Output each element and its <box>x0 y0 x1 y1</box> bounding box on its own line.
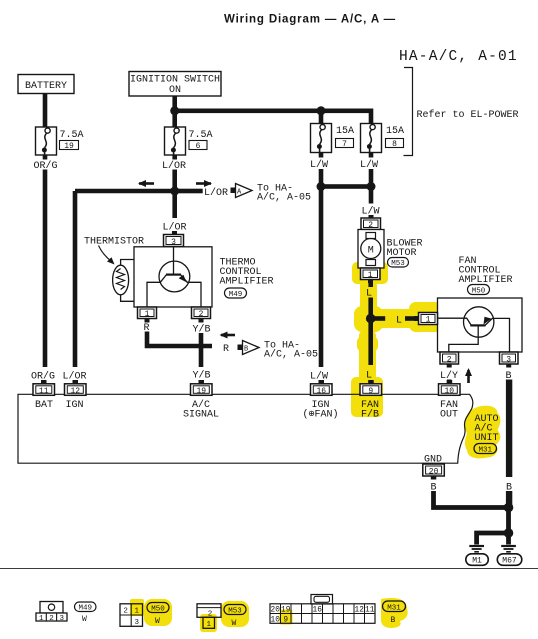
fuse 7 body <box>311 124 332 153</box>
connector stub square B <box>238 345 243 351</box>
svg-text:OUT: OUT <box>440 410 458 421</box>
wire B down right side <box>506 380 512 478</box>
svg-text:B: B <box>391 616 396 625</box>
wire junction to L/OR left elbow <box>75 189 175 194</box>
node junction L/W left <box>317 182 326 191</box>
svg-text:12: 12 <box>70 387 80 396</box>
svg-text:Y/B: Y/B <box>193 370 211 382</box>
wire L/OR left long run <box>73 191 78 367</box>
svg-text:19: 19 <box>64 142 74 151</box>
svg-text:BATTERY: BATTERY <box>25 81 67 92</box>
wire L/OR to junction A <box>172 170 177 192</box>
highlight AUTO A/C UNIT label <box>465 406 501 459</box>
wire label L/W (fuse 8 out) <box>369 153 374 158</box>
highlight wire blower to junction <box>360 280 377 322</box>
connector label M53 oval <box>388 258 409 268</box>
svg-text:M31: M31 <box>478 447 492 455</box>
svg-text:AMPLIFIER: AMPLIFIER <box>220 277 274 288</box>
svg-text:M49: M49 <box>229 291 243 299</box>
fuse 7 number box <box>336 139 354 148</box>
svg-text:ON: ON <box>169 85 181 96</box>
legend M50 oval <box>147 603 169 613</box>
svg-text:1: 1 <box>145 310 150 319</box>
op-amp box fan control amplifier <box>438 298 523 352</box>
connector label M49 oval <box>225 288 247 298</box>
transistor Q2 emitter leg to pin 2 <box>449 325 478 352</box>
transistor Q1 circle <box>159 261 190 292</box>
highlight wire blob mid <box>357 336 378 352</box>
legend M50 connector face <box>120 604 143 627</box>
svg-text:L: L <box>396 316 402 327</box>
svg-text:11: 11 <box>39 387 49 396</box>
wire to ground M1 <box>477 533 509 545</box>
highlight legend M50 pin 1 cell <box>130 599 144 616</box>
svg-text:9: 9 <box>283 616 288 624</box>
connector label M50 oval <box>468 285 490 295</box>
svg-text:2: 2 <box>368 221 373 230</box>
legend M31 connector face <box>270 604 375 624</box>
highlight legend M50 oval <box>144 599 172 626</box>
svg-text:Wiring Diagram — A/C, A —: Wiring Diagram — A/C, A — <box>224 14 396 26</box>
svg-text:3: 3 <box>60 615 65 623</box>
highlight connector 9 / FAN F/B <box>351 377 383 417</box>
svg-text:M31: M31 <box>387 605 401 613</box>
svg-text:9: 9 <box>368 387 373 396</box>
motor M1 blower body <box>358 230 384 269</box>
legend M49 oval <box>75 602 97 612</box>
wire L/OR down to pin 3 <box>172 193 177 218</box>
svg-text:IGN: IGN <box>66 400 84 411</box>
wire thermistor bottom to box <box>121 295 134 302</box>
wire junction L right segment <box>371 316 386 321</box>
wire L/Y to connector 10 <box>447 380 452 385</box>
svg-text:L/OR: L/OR <box>204 187 228 199</box>
svg-text:R: R <box>223 344 229 355</box>
svg-text:W: W <box>232 619 237 628</box>
transistor Q1 base wire from pin 3 <box>173 247 175 274</box>
svg-text:B: B <box>244 346 248 354</box>
ignition switch box <box>129 72 221 97</box>
svg-text:6: 6 <box>196 142 201 151</box>
fuse 8 number box <box>386 139 404 148</box>
highlight wire to connector 9 <box>359 330 376 382</box>
svg-text:20: 20 <box>271 607 281 615</box>
auto a/c unit box outline <box>18 394 473 463</box>
fuse 6 body <box>165 127 186 155</box>
wire junction to blower <box>369 187 374 204</box>
wire L down to connector 9 <box>368 321 373 366</box>
wire label OR/G (fuse 19 out) <box>43 155 48 160</box>
svg-text:15A: 15A <box>336 126 354 137</box>
transistor Q2 base bar <box>470 324 485 326</box>
svg-text:7: 7 <box>342 140 347 149</box>
node junction bus fuse 7 <box>317 106 326 115</box>
fuse 6 number box <box>189 141 207 150</box>
svg-text:W: W <box>155 617 160 626</box>
legend M31 tab <box>311 595 333 605</box>
wire L to junction <box>368 298 373 321</box>
highlight junction L <box>354 306 383 332</box>
node junction B upper <box>504 503 514 513</box>
node junction L <box>366 314 376 324</box>
wire thermistor top to box <box>121 260 134 266</box>
thermistor RT1 zigzag <box>117 269 125 290</box>
op-amp box thermo control amplifier <box>134 247 212 307</box>
ground M1 <box>469 545 484 547</box>
svg-text:1: 1 <box>135 608 140 616</box>
svg-text:1: 1 <box>368 271 373 280</box>
svg-text:A/C, A-05: A/C, A-05 <box>257 192 311 204</box>
wire label L/OR (fuse 6 out) <box>172 155 177 160</box>
svg-text:M1: M1 <box>472 557 482 566</box>
arrow left <box>139 182 154 185</box>
svg-text:2: 2 <box>447 356 452 365</box>
connector 20 <box>423 464 445 476</box>
highlight horizontal L wire <box>368 309 420 328</box>
thermistor RT1 body <box>113 265 129 295</box>
svg-text:2: 2 <box>123 608 128 616</box>
wire B from connector 20 elbow <box>434 491 507 508</box>
off-page triangle A <box>236 184 253 198</box>
svg-text:UNIT: UNIT <box>475 433 499 444</box>
svg-text:12: 12 <box>355 607 365 615</box>
svg-text:M50: M50 <box>472 288 486 296</box>
svg-text:3: 3 <box>506 356 511 365</box>
svg-text:10: 10 <box>271 616 281 624</box>
svg-text:19: 19 <box>281 607 291 615</box>
highlight legend M31 oval <box>381 598 408 628</box>
connector 12 <box>73 380 79 384</box>
wire junction L/W horizontal <box>321 184 371 189</box>
wire blower pin1 down <box>368 283 373 287</box>
wire L into fan amp pin 1 <box>405 316 414 321</box>
transistor Q1 collector leg to pin 1 <box>147 275 167 307</box>
fuse 8 body <box>361 124 382 153</box>
svg-text:15A: 15A <box>386 126 404 137</box>
transistor Q2 base wire <box>438 318 472 325</box>
legend M53 oval <box>224 605 246 615</box>
wire OR/G long run <box>43 170 48 368</box>
transistor Q2 circle <box>464 307 494 337</box>
wire battery to fuse 19 <box>43 94 48 128</box>
svg-text:M: M <box>368 246 374 257</box>
svg-text:11: 11 <box>365 607 375 615</box>
svg-text:L: L <box>366 371 372 382</box>
thermo amp pin 3 <box>172 231 177 235</box>
svg-text:M53: M53 <box>228 608 242 616</box>
connector 9 <box>368 380 374 384</box>
svg-text:7.5A: 7.5A <box>189 130 213 141</box>
svg-text:M53: M53 <box>391 260 405 268</box>
svg-text:M67: M67 <box>502 557 517 566</box>
svg-text:1: 1 <box>39 615 44 623</box>
highlight legend M31 cell 9 <box>280 610 293 625</box>
svg-text:M49: M49 <box>78 605 92 613</box>
svg-text:2: 2 <box>199 310 204 319</box>
svg-text:19: 19 <box>196 387 206 396</box>
off-page triangle B <box>243 341 260 355</box>
wire fuse 8 to junction <box>369 169 374 185</box>
ground M67 <box>501 545 516 547</box>
connector 11 <box>41 380 47 384</box>
blower pin 2 <box>370 214 372 216</box>
node junction L/OR <box>170 187 179 196</box>
transistor Q1 base bar <box>166 274 181 276</box>
connector label M31 oval <box>474 444 497 454</box>
svg-text:16: 16 <box>316 387 326 396</box>
svg-text:M50: M50 <box>151 606 165 614</box>
transistor Q1 emitter arrowhead <box>179 275 187 282</box>
separator line <box>0 568 538 570</box>
battery box <box>18 75 74 94</box>
wire B between junctions <box>506 508 511 534</box>
highlight legend M53 oval <box>221 601 249 627</box>
fuse 19 number box <box>60 141 79 150</box>
svg-text:Refer to EL-POWER: Refer to EL-POWER <box>417 109 519 121</box>
svg-text:IGNITION SWITCH: IGNITION SWITCH <box>130 75 220 86</box>
connector stub square A <box>231 188 236 194</box>
transistor Q2 collector leg to pin 3 <box>485 318 510 352</box>
thermo amp pin 1 <box>138 307 157 319</box>
thermistor pointer arrow <box>99 246 112 262</box>
wire fuse 7 to junction <box>319 169 324 185</box>
blower pin 1 <box>361 268 381 280</box>
svg-text:W: W <box>82 615 87 624</box>
transistor Q2 collector arrowhead <box>484 317 492 325</box>
svg-text:SIGNAL: SIGNAL <box>183 410 219 421</box>
svg-text:10: 10 <box>444 387 454 396</box>
wire junction to L/OR branch label <box>175 189 203 194</box>
svg-text:7.5A: 7.5A <box>60 130 84 141</box>
connector 16 <box>319 380 325 384</box>
fan amp pin 1 <box>414 316 419 321</box>
wire R elbow to off-page B <box>147 332 212 347</box>
wire bus drop to fuse 8 <box>369 109 374 128</box>
svg-text:3: 3 <box>171 238 176 247</box>
wire bus to fuses <box>175 109 372 114</box>
svg-text:HA-A/C, A-01: HA-A/C, A-01 <box>399 49 518 65</box>
connector 19 <box>199 380 205 384</box>
wire B to junction <box>506 491 512 508</box>
thermo amp pin 2 <box>192 307 211 319</box>
svg-text:20: 20 <box>429 468 439 477</box>
svg-text:F/B: F/B <box>361 409 379 421</box>
svg-text:1: 1 <box>206 621 211 629</box>
arrow right <box>196 182 211 185</box>
svg-text:16: 16 <box>313 607 323 615</box>
refer bracket <box>404 68 413 156</box>
wire label L/W (fuse 7 out) <box>319 153 324 158</box>
highlight legend M53 pin 1 cell <box>200 614 217 632</box>
svg-text:A/C, A-05: A/C, A-05 <box>264 349 318 361</box>
svg-text:8: 8 <box>392 140 397 149</box>
svg-text:BAT: BAT <box>35 400 53 411</box>
legend M53 connector face <box>197 604 221 618</box>
wire to ground M67 <box>506 535 511 545</box>
fan amp pin 3 <box>500 352 519 364</box>
highlight blower pin 1 <box>352 262 388 284</box>
fan amp pin 2 <box>440 352 459 364</box>
wire L/W long run to connector 16 <box>319 187 324 368</box>
node junction L/W right <box>367 182 376 191</box>
wire bus drop to fuse 7 <box>319 111 324 127</box>
svg-text:2: 2 <box>49 615 54 623</box>
connector 10 <box>447 380 453 384</box>
highlight fan amp pin 1 <box>409 302 442 332</box>
wire Y/B down run <box>199 333 204 367</box>
arrow left above R label <box>221 334 235 337</box>
svg-text:(⊕FAN): (⊕FAN) <box>302 409 338 421</box>
legend M49 connector face <box>40 602 63 614</box>
node junction ignition bus <box>170 106 179 115</box>
wire ignition to junction <box>172 96 177 127</box>
transistor Q1 emitter leg to pin 2 <box>180 275 201 307</box>
arrow up <box>467 370 470 383</box>
legend M31 oval <box>383 601 406 612</box>
fuse 19 body <box>36 127 57 155</box>
svg-text:3: 3 <box>135 619 140 627</box>
svg-text:THERMISTOR: THERMISTOR <box>84 237 144 248</box>
svg-text:1: 1 <box>426 316 431 325</box>
node junction B lower <box>504 528 514 538</box>
